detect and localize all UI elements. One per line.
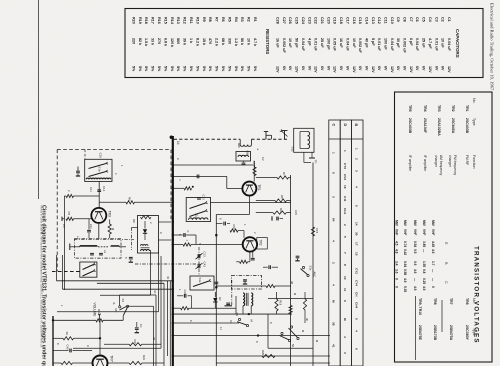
- svg-text:12V: 12V: [314, 66, 318, 73]
- svg-text:M: M: [332, 300, 336, 303]
- transistor TR7: [93, 356, 108, 366]
- earth capacitor C16: [77, 167, 79, 171]
- wire with capacitor C19: [173, 175, 227, 177]
- svg-text:5: 5: [343, 236, 347, 238]
- svg-text:0: 0: [431, 286, 435, 288]
- wire: [235, 296, 237, 314]
- switch S1f: [83, 265, 94, 270]
- svg-text:5%: 5%: [138, 66, 142, 72]
- svg-text:0.5: 0.5: [413, 249, 417, 254]
- wire: [248, 196, 250, 215]
- transistor TR1: [242, 182, 256, 196]
- FM aerial: [284, 131, 286, 140]
- svg-text:0.01 uF: 0.01 uF: [314, 38, 318, 51]
- svg-text:1C: 1C: [139, 324, 143, 328]
- svg-text:IF amplifier: IF amplifier: [423, 155, 427, 172]
- svg-text:0.04 uF: 0.04 uF: [345, 38, 349, 51]
- svg-text:7: 7: [343, 252, 347, 254]
- svg-text:C24: C24: [301, 17, 305, 25]
- svg-text:R9: R9: [202, 17, 206, 22]
- svg-text:0.002 uF: 0.002 uF: [403, 38, 407, 54]
- svg-text:6V: 6V: [326, 66, 330, 71]
- svg-text:TR1: TR1: [257, 184, 261, 191]
- svg-text:12V: 12V: [447, 66, 451, 73]
- svg-text:C28: C28: [276, 17, 280, 24]
- svg-text:4.6: 4.6: [431, 249, 435, 254]
- table internal rule: [415, 296, 417, 360]
- wire rail: [268, 347, 313, 349]
- resistor R12: [173, 187, 184, 189]
- wire: [159, 221, 172, 223]
- svg-text:CA3: CA3: [203, 262, 207, 268]
- svg-text:R23: R23: [142, 355, 146, 360]
- IF detector box: [138, 216, 159, 254]
- ferrite rod aerial enclosure: [74, 239, 121, 258]
- svg-text:2SC645A: 2SC645A: [451, 118, 455, 134]
- dashed tuner enclosure bottom: [52, 271, 80, 273]
- svg-text:4.7 pF: 4.7 pF: [428, 38, 432, 49]
- svg-text:C1: C1: [447, 17, 451, 22]
- switch S1c: [190, 203, 206, 209]
- svg-text:40 pF: 40 pF: [364, 38, 368, 48]
- svg-text:12V: 12V: [295, 66, 299, 73]
- svg-text:9: 9: [332, 172, 336, 174]
- svg-text:15: 15: [354, 252, 358, 256]
- capacitor C28: [215, 281, 219, 283]
- svg-text:560: 560: [176, 38, 180, 44]
- svg-text:38: 38: [152, 337, 156, 340]
- earth capacitor C21: [276, 217, 278, 221]
- components table box: [125, 9, 483, 78]
- svg-text:Circuit diagram for model VTR1: Circuit diagram for model VTR131. Transi…: [41, 205, 47, 366]
- svg-text:4.45: 4.45: [431, 241, 435, 247]
- svg-text:R17: R17: [151, 17, 155, 24]
- capacitor C13: [197, 197, 201, 199]
- svg-text:6V: 6V: [422, 66, 426, 71]
- svg-text:R7: R7: [282, 172, 286, 176]
- capacitor C11: [88, 219, 90, 230]
- coil: [189, 218, 208, 220]
- svg-text:R7: R7: [215, 17, 219, 22]
- switch table strip B: [340, 120, 351, 366]
- svg-text:5%: 5%: [227, 66, 231, 72]
- link: [135, 263, 196, 265]
- svg-text:C13: C13: [371, 17, 375, 24]
- svg-text:17: 17: [354, 242, 358, 246]
- svg-text:5%: 5%: [189, 66, 193, 72]
- svg-text:470: 470: [208, 38, 212, 44]
- svg-text:330: 330: [227, 38, 231, 44]
- dashed tuner enclosure left: [56, 150, 58, 272]
- svg-text:0: 0: [395, 286, 399, 288]
- svg-text:C5: C5: [67, 212, 71, 216]
- wire: [267, 314, 269, 348]
- driver transformer T2: [243, 293, 245, 306]
- svg-text:25 uF: 25 uF: [422, 38, 426, 48]
- svg-text:C2: C2: [441, 17, 445, 22]
- svg-text:8: 8: [343, 264, 347, 266]
- resistor R23: [108, 362, 129, 364]
- svg-text:1: 1: [354, 148, 358, 150]
- aerial hook symbol: [265, 132, 267, 140]
- svg-text:41: 41: [332, 344, 336, 348]
- svg-text:3.6: 3.6: [395, 269, 399, 274]
- svg-text:R11: R11: [189, 17, 193, 24]
- svg-text:changer: changer: [448, 155, 452, 168]
- svg-text:100 pF: 100 pF: [326, 38, 330, 50]
- IF transformer Z2: [236, 152, 251, 162]
- svg-text:5%: 5%: [221, 66, 225, 72]
- svg-text:5%: 5%: [176, 66, 180, 72]
- svg-text:0.58: 0.58: [403, 269, 407, 275]
- switch blade: [193, 281, 209, 287]
- wavechange switch box S1ab: [85, 159, 112, 181]
- svg-text:82 k: 82 k: [138, 38, 142, 46]
- svg-text:C: C: [186, 231, 190, 233]
- svg-text:C26: C26: [183, 290, 187, 296]
- svg-text:Type: Type: [472, 328, 476, 336]
- svg-text:40: 40: [166, 276, 170, 279]
- wire: [303, 152, 305, 162]
- wire with capacitor: [173, 234, 183, 236]
- diode D1: [144, 221, 146, 229]
- switch S6: [281, 332, 283, 334]
- footer rule: [38, 0, 40, 199]
- svg-text:4L: 4L: [112, 302, 116, 305]
- svg-text:5.35: 5.35: [403, 286, 407, 292]
- svg-text:10: 10: [343, 276, 347, 280]
- switch S1b: [89, 172, 107, 177]
- FM aerial coil box: [294, 128, 314, 152]
- svg-text:2SB475E: 2SB475E: [418, 325, 422, 341]
- wire rail: [173, 335, 330, 337]
- svg-text:TR2: TR2: [451, 105, 455, 112]
- svg-text:C26: C26: [288, 17, 292, 24]
- svg-text:R9: R9: [132, 219, 136, 223]
- svg-text:C20: C20: [326, 17, 330, 24]
- junction: [215, 286, 217, 288]
- svg-text:MW: MW: [403, 220, 407, 226]
- svg-text:1.55: 1.55: [422, 261, 426, 267]
- link: [131, 228, 133, 251]
- svg-text:3K: 3K: [65, 332, 69, 336]
- svg-text:8.2 k: 8.2 k: [195, 38, 199, 47]
- svg-text:56: 56: [291, 344, 295, 347]
- wire: [312, 163, 314, 366]
- svg-text:S1e: S1e: [198, 278, 202, 283]
- svg-text:C15: C15: [99, 153, 103, 159]
- svg-text:5%: 5%: [144, 66, 148, 72]
- svg-text:C9: C9: [396, 17, 400, 22]
- svg-text:changer: changer: [434, 155, 438, 168]
- svg-text:IF amplifier: IF amplifier: [408, 155, 412, 172]
- svg-text:R19: R19: [138, 17, 142, 24]
- bus junction dots: [172, 164, 174, 166]
- switch S5: [290, 326, 292, 328]
- svg-text:S4: S4: [121, 299, 125, 303]
- svg-text:AM frequency: AM frequency: [439, 155, 443, 176]
- svg-text:R19: R19: [279, 300, 283, 306]
- resistor R9: [141, 216, 152, 219]
- svg-text:C19: C19: [333, 17, 337, 24]
- svg-text:CH4: CH4: [354, 302, 358, 308]
- earth capacitor: [129, 256, 133, 258]
- svg-text:VHF: VHF: [395, 229, 399, 235]
- svg-text:R1: R1: [253, 17, 257, 22]
- svg-text:TR6: TR6: [465, 298, 469, 305]
- svg-text:6V: 6V: [364, 66, 368, 71]
- wire rail: [173, 313, 292, 315]
- resistor R3: [64, 195, 66, 197]
- resistor R4: [109, 220, 111, 225]
- ferrite rod aerial coil L3: [69, 244, 71, 251]
- svg-text:MW: MW: [431, 220, 435, 226]
- svg-text:0.42: 0.42: [403, 249, 407, 255]
- svg-text:C3: C3: [434, 17, 438, 22]
- svg-text:10 uF: 10 uF: [288, 38, 292, 48]
- svg-text:4.6: 4.6: [422, 286, 426, 291]
- svg-text:FM RF: FM RF: [465, 155, 469, 165]
- svg-text:5%: 5%: [195, 66, 199, 72]
- resistor R11: [256, 212, 273, 214]
- svg-text:C18: C18: [339, 17, 343, 24]
- resistor R8: [256, 200, 275, 202]
- resistor R25: [289, 305, 292, 313]
- resistor R10: [230, 229, 238, 232]
- svg-text:No.: No.: [472, 98, 476, 103]
- svg-text:MW: MW: [422, 220, 426, 226]
- mechanical link: [74, 238, 134, 240]
- resistor R22: [53, 362, 61, 364]
- svg-text:Z2: Z2: [252, 161, 256, 165]
- wire: [167, 281, 169, 356]
- resistor: [173, 244, 183, 246]
- svg-text:5%: 5%: [157, 66, 161, 72]
- svg-text:5: 5: [354, 318, 358, 320]
- earth capacitor: [226, 302, 230, 304]
- svg-text:0.04 uF: 0.04 uF: [415, 38, 419, 51]
- svg-text:100 uF: 100 uF: [384, 38, 388, 50]
- svg-text:TR4: TR4: [423, 105, 427, 112]
- svg-text:5 pF: 5 pF: [371, 38, 375, 46]
- transistor TR2: [243, 237, 257, 251]
- svg-text:33 k: 33 k: [151, 38, 155, 46]
- svg-text:R28: R28: [261, 350, 265, 355]
- resistor R7: [256, 177, 277, 179]
- wire: [132, 227, 138, 229]
- svg-text:MW: MW: [395, 220, 399, 226]
- resistor R29: [262, 354, 275, 357]
- supply bus wire: [172, 136, 174, 366]
- wire rail: [63, 288, 175, 290]
- svg-text:R6: R6: [128, 197, 132, 201]
- svg-text:C12: C12: [377, 17, 381, 24]
- svg-text:CT3: CT3: [343, 163, 347, 169]
- svg-text:5: 5: [354, 205, 358, 207]
- svg-text:0.002 uF: 0.002 uF: [358, 38, 362, 54]
- svg-text:30 pF: 30 pF: [396, 38, 400, 48]
- svg-text:C: C: [331, 124, 335, 127]
- aerial coupling coil L1: [239, 139, 241, 144]
- svg-text:38: 38: [290, 281, 294, 284]
- svg-text:5%: 5%: [151, 66, 155, 72]
- svg-text:4.7 k: 4.7 k: [253, 38, 257, 47]
- dashed aerial link 2: [251, 138, 288, 140]
- svg-text:S: S: [198, 243, 202, 245]
- svg-text:6V: 6V: [320, 66, 324, 71]
- svg-text:120 k: 120 k: [170, 38, 174, 48]
- svg-text:AVC: AVC: [313, 272, 317, 278]
- svg-text:0.04 uF: 0.04 uF: [390, 38, 394, 51]
- svg-text:0.002 uF: 0.002 uF: [282, 38, 286, 54]
- svg-text:2: 2: [354, 158, 358, 160]
- svg-text:6V: 6V: [282, 66, 286, 71]
- svg-text:10 k: 10 k: [247, 38, 251, 46]
- junction: [257, 335, 259, 337]
- svg-text:C16: C16: [352, 17, 356, 24]
- svg-text:10 uF: 10 uF: [441, 38, 445, 48]
- svg-text:9: 9: [343, 300, 347, 302]
- svg-text:6V: 6V: [358, 66, 362, 71]
- svg-text:CH1: CH1: [343, 208, 347, 214]
- label TR2 box: [257, 238, 268, 250]
- svg-text:C21: C21: [320, 17, 324, 24]
- svg-text:C2: C2: [261, 157, 265, 161]
- svg-text:VHF: VHF: [431, 229, 435, 235]
- svg-text:5%: 5%: [170, 66, 174, 72]
- svg-text:888: 888: [246, 151, 250, 156]
- switch box S1e: [190, 276, 214, 290]
- svg-text:4: 4: [343, 336, 347, 338]
- wire: [159, 239, 172, 241]
- IF transformer Z3 box: [232, 276, 262, 290]
- svg-text:TR3: TR3: [108, 211, 112, 218]
- svg-text:D: D: [343, 124, 347, 127]
- svg-text:1.5 k: 1.5 k: [144, 38, 148, 47]
- svg-text:M1: M1: [114, 309, 118, 313]
- trimmer CA3: [197, 264, 199, 268]
- svg-text:R18: R18: [144, 17, 148, 24]
- svg-text:16: 16: [343, 185, 347, 189]
- capacitor C18: [216, 223, 222, 225]
- link: [198, 247, 200, 276]
- wavechange switch box S1cd: [186, 198, 210, 222]
- svg-text:C14: C14: [102, 186, 106, 192]
- svg-text:R5: R5: [227, 17, 231, 22]
- svg-text:VOLUME: VOLUME: [93, 303, 97, 318]
- svg-text:5%: 5%: [183, 66, 187, 72]
- resistor R19: [276, 292, 278, 299]
- resistor R21: [104, 343, 129, 345]
- svg-text:14: 14: [219, 327, 223, 330]
- wire rail: [173, 322, 239, 324]
- svg-text:2SB475A: 2SB475A: [449, 325, 453, 341]
- svg-text:6V: 6V: [301, 66, 305, 71]
- dashed aerial link: [174, 138, 240, 140]
- svg-text:C25: C25: [295, 17, 299, 24]
- svg-text:C: C: [176, 158, 180, 160]
- switch table strip C: [329, 120, 340, 366]
- svg-text:TR3: TR3: [437, 105, 441, 112]
- svg-text:25 uF: 25 uF: [320, 38, 324, 48]
- switch S1d: [190, 211, 206, 217]
- svg-text:2: 2: [332, 262, 336, 264]
- wire: [53, 319, 96, 321]
- wire rail: [216, 362, 330, 364]
- wire: [56, 255, 58, 281]
- svg-text:12V: 12V: [333, 66, 337, 73]
- junction: [99, 337, 101, 339]
- svg-text:11: 11: [343, 288, 347, 292]
- earth capacitor: [296, 255, 300, 257]
- wire: [99, 320, 101, 355]
- strip header divider: [329, 138, 363, 140]
- svg-text:No.: No.: [472, 298, 476, 303]
- svg-text:4.8: 4.8: [395, 249, 399, 254]
- svg-text:4.6: 4.6: [413, 269, 417, 274]
- svg-text:Type: Type: [472, 118, 476, 126]
- svg-text:2SB173B: 2SB173B: [433, 325, 437, 341]
- svg-text:10 uF: 10 uF: [352, 38, 356, 48]
- svg-text:0.01 uF: 0.01 uF: [434, 38, 438, 51]
- svg-text:4: 4: [354, 330, 358, 332]
- svg-text:C7: C7: [409, 17, 413, 22]
- svg-text:5%: 5%: [240, 66, 244, 72]
- svg-text:2SC403B: 2SC403B: [465, 118, 469, 134]
- svg-text:56 k: 56 k: [240, 38, 244, 46]
- svg-text:5%: 5%: [131, 66, 135, 72]
- svg-text:0.6: 0.6: [413, 261, 417, 266]
- svg-text:12V: 12V: [371, 66, 375, 73]
- svg-text:3K: 3K: [305, 318, 309, 321]
- trimmer CV3: [197, 254, 199, 258]
- svg-text:FM frequency: FM frequency: [453, 155, 457, 176]
- svg-text:R21: R21: [133, 340, 137, 346]
- svg-text:0.04 uF: 0.04 uF: [301, 38, 305, 51]
- svg-text:C27: C27: [282, 17, 286, 24]
- svg-text:C17: C17: [345, 17, 349, 24]
- capacitor C24: [268, 265, 270, 269]
- AGC switch S1e: [302, 266, 304, 268]
- svg-text:0.05 uF: 0.05 uF: [333, 38, 337, 51]
- svg-text:CV3: CV3: [343, 174, 347, 180]
- svg-text:Function: Function: [472, 155, 476, 168]
- switch S1a: [89, 164, 107, 169]
- svg-text:6V: 6V: [396, 66, 400, 71]
- svg-text:C6: C6: [415, 17, 419, 22]
- svg-text:5%: 5%: [215, 66, 219, 72]
- svg-text:6V: 6V: [403, 66, 407, 71]
- wire: [98, 223, 100, 238]
- svg-text:C8: C8: [403, 17, 407, 22]
- svg-text:R14: R14: [170, 17, 174, 25]
- svg-text:6V: 6V: [384, 66, 388, 71]
- svg-text:5%: 5%: [234, 66, 238, 72]
- svg-text:TR7: TR7: [110, 355, 114, 362]
- svg-text:12V: 12V: [276, 66, 280, 73]
- svg-text:2.2 k: 2.2 k: [215, 38, 219, 47]
- svg-text:D2: D2: [218, 297, 222, 301]
- svg-text:4: 4: [332, 240, 336, 242]
- on-off switch S4: [119, 306, 121, 308]
- resistor R26: [303, 299, 306, 310]
- switch S3: [238, 318, 240, 320]
- svg-text:TR7: TR7: [449, 298, 453, 305]
- junction: [215, 234, 217, 236]
- resistor R13: [253, 167, 256, 176]
- svg-text:12V: 12V: [352, 66, 356, 73]
- coupling capacitors: [90, 252, 94, 254]
